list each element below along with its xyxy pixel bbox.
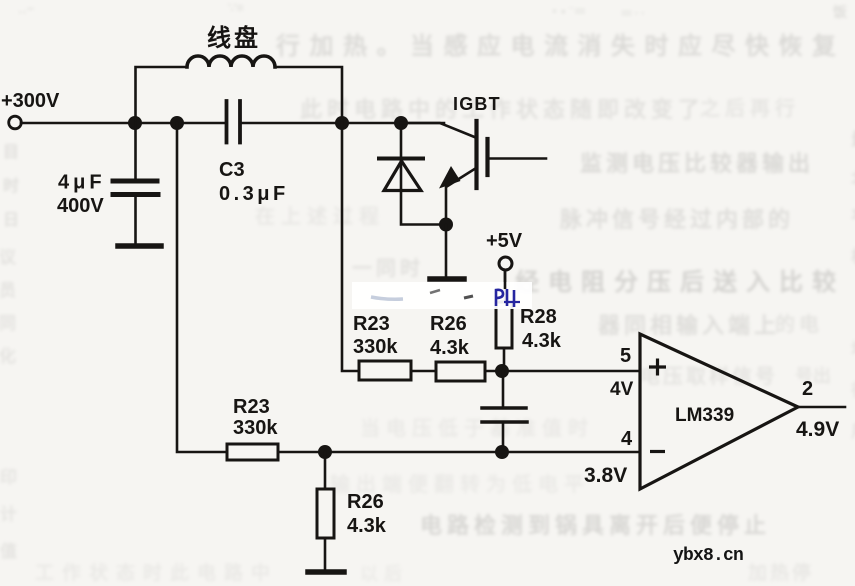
node J3 [335,116,349,130]
svg-text:R23: R23 [233,396,270,418]
wire output [798,406,845,409]
resistor R23 upper [359,361,411,380]
inductor L1 coil [187,56,275,67]
node J1 [128,116,142,130]
resistor R26 lower [317,489,334,538]
label minus [650,450,665,453]
wire 5V to R28 [504,270,507,302]
wire coil branch up [136,67,188,123]
wire main rail right [242,122,444,125]
resistor R26 upper [436,362,485,381]
resistor R23 lower [227,444,278,460]
svg-text:4V: 4V [610,379,634,400]
node J5 [495,364,509,378]
wire right column to R23 [342,123,359,371]
node J4 [394,116,408,130]
svg-text:4.9V: 4.9V [796,418,839,441]
input terminal +300V [9,116,22,129]
svg-text:2: 2 [802,378,813,400]
wire node to R26 lower [324,452,327,489]
whiteout patch with blue pen mark [352,270,532,309]
svg-text:ybx8.cn: ybx8.cn [673,546,743,566]
svg-text:R26: R26 [347,491,384,513]
svg-text:330k: 330k [353,336,398,358]
ground G3 [308,569,344,575]
wire R26 to ground [324,538,327,569]
wire to comparator + [485,370,640,373]
node J8 [318,445,332,459]
op-amp U1 LM339 [640,334,798,489]
wire emitter to ground [445,225,448,276]
faint bleed-through background text [276,26,846,61]
svg-text:4: 4 [621,428,633,450]
svg-text:R26: R26 [430,313,467,335]
svg-text:R28: R28 [520,306,557,328]
svg-text:5: 5 [620,345,631,367]
node J2 [170,116,184,130]
capacitor C4uF [134,123,137,179]
svg-text:C3: C3 [219,159,245,181]
wire pin4 line [278,451,640,454]
node J7 [495,445,509,459]
ground G1 [118,243,161,249]
wire R28 to node [503,348,506,371]
svg-text:R23: R23 [353,313,390,335]
capacitor C3 [227,101,241,143]
resistor R28 [496,302,512,348]
svg-text:4μF: 4μF [58,172,106,194]
svg-text:0.3μF: 0.3μF [219,183,289,205]
svg-text:线盘: 线盘 [207,24,261,52]
ground G2 [430,276,464,282]
label plus [649,359,666,376]
svg-text:400V: 400V [57,195,104,217]
wire left sense column [177,123,227,452]
wire [411,370,436,373]
svg-text:330k: 330k [233,417,278,439]
svg-text:3.8V: 3.8V [584,464,627,487]
svg-text:+300V: +300V [1,90,60,112]
+5V terminal [499,257,512,270]
svg-text:4.3k: 4.3k [522,330,562,352]
node J6 emitter [439,218,453,232]
svg-text:LM339: LM339 [675,405,734,426]
diode D1 [400,123,403,190]
svg-text:+5V: +5V [486,230,523,252]
wire main rail left [21,122,225,125]
capacitor C2 filter [502,371,505,407]
wire diode anode to emitter node [401,190,446,225]
svg-text:4.3k: 4.3k [430,337,470,359]
IGBT Q1 [401,123,475,137]
wire coil to right down [275,67,342,123]
svg-text:4.3k: 4.3k [347,515,387,537]
svg-text:IGBT: IGBT [453,94,501,114]
